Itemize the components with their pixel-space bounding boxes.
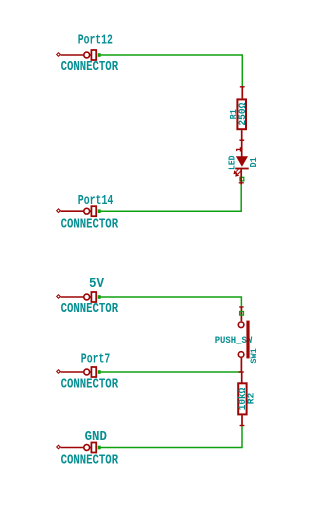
- svg-text:R2: R2: [245, 393, 256, 405]
- svg-text:CONNECTOR: CONNECTOR: [61, 301, 119, 317]
- svg-text:Port7: Port7: [81, 352, 111, 368]
- svg-text:CONNECTOR: CONNECTOR: [61, 453, 119, 469]
- svg-text:Port14: Port14: [78, 193, 114, 209]
- svg-text:Port12: Port12: [78, 33, 113, 49]
- svg-text:5V: 5V: [89, 276, 105, 292]
- svg-text:GND: GND: [85, 429, 107, 445]
- svg-text:LED: LED: [227, 156, 237, 171]
- svg-text:R1: R1: [229, 109, 239, 119]
- svg-text:CONNECTOR: CONNECTOR: [61, 216, 119, 232]
- svg-text:SW1: SW1: [249, 348, 259, 363]
- svg-text:CONNECTOR: CONNECTOR: [61, 59, 119, 75]
- svg-text:CONNECTOR: CONNECTOR: [61, 376, 119, 392]
- svg-text:D1: D1: [248, 157, 259, 168]
